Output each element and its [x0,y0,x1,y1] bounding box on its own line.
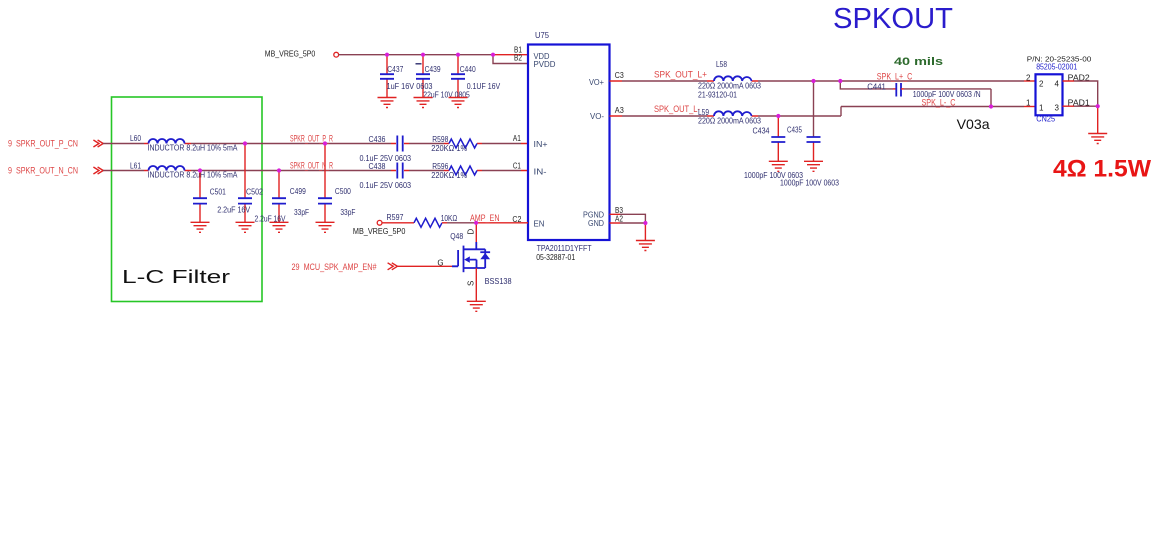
svg-text:R598: R598 [432,135,448,144]
svg-text:2: 2 [1039,80,1044,89]
svg-text:220KΩ 1%: 220KΩ 1% [431,144,467,153]
svg-text:40 mils: 40 mils [894,56,943,68]
svg-text:220KΩ 1%: 220KΩ 1% [431,171,467,180]
svg-text:INDUCTOR 8.2uH 10% 5mA: INDUCTOR 8.2uH 10% 5mA [148,171,239,180]
svg-text:MB_VREG_5P0: MB_VREG_5P0 [353,227,406,236]
svg-text:L60: L60 [130,134,141,143]
svg-text:CN25: CN25 [1036,114,1056,123]
svg-text:C499: C499 [290,187,306,196]
svg-text:AMP_EN: AMP_EN [470,213,500,223]
svg-text:L-C Filter: L-C Filter [122,267,230,287]
svg-text:SPKOUT: SPKOUT [833,3,953,35]
svg-text:C500: C500 [335,187,351,196]
svg-text:SPKR_OUT_P_R: SPKR_OUT_P_R [290,134,333,144]
svg-text:U75: U75 [535,31,550,40]
svg-text:1: 1 [1039,103,1044,112]
svg-text:A2: A2 [615,215,623,224]
svg-text:SPK_L+_C: SPK_L+_C [877,71,913,81]
svg-text:IN+: IN+ [534,140,548,149]
svg-text:220Ω 2000mA 0603: 220Ω 2000mA 0603 [698,82,761,91]
svg-text:C440: C440 [460,65,476,74]
svg-text:R597: R597 [387,213,404,222]
svg-text:85205-02001: 85205-02001 [1036,62,1077,71]
svg-text:C3: C3 [615,71,624,80]
svg-text:PVDD: PVDD [534,60,556,69]
svg-text:C502: C502 [246,188,263,197]
svg-text:SPK_OUT_L-: SPK_OUT_L- [654,104,700,114]
svg-text:1: 1 [1026,99,1031,108]
svg-text:V03a: V03a [957,116,990,132]
svg-text:33pF: 33pF [340,208,355,217]
svg-text:C437: C437 [387,65,403,74]
svg-text:A3: A3 [615,106,624,115]
svg-text:C436: C436 [369,135,386,144]
svg-text:C2: C2 [512,215,521,224]
svg-text:2: 2 [1026,74,1031,83]
svg-text:BSS138: BSS138 [485,277,513,286]
svg-text:INDUCTOR 8.2uH 10% 5mA: INDUCTOR 8.2uH 10% 5mA [148,144,239,153]
svg-text:B2: B2 [514,53,522,62]
svg-text:MB_VREG_5P0: MB_VREG_5P0 [265,50,316,59]
svg-text:0.1UF 16V: 0.1UF 16V [467,82,501,91]
svg-text:D: D [467,229,476,235]
svg-text:2.2uF 16V: 2.2uF 16V [217,206,251,215]
svg-text:EN: EN [534,220,545,229]
svg-text:B3: B3 [615,206,623,215]
svg-text:VO+: VO+ [589,78,604,87]
svg-text:L61: L61 [130,161,141,170]
svg-text:C434: C434 [753,126,770,135]
svg-text:C438: C438 [369,162,386,171]
svg-text:R596: R596 [432,162,448,171]
svg-text:21-93120-01: 21-93120-01 [698,91,737,100]
svg-text:10KΩ: 10KΩ [441,214,458,223]
svg-text:29 MCU_SPK_AMP_EN#: 29 MCU_SPK_AMP_EN# [292,262,377,272]
svg-text:L58: L58 [716,60,727,69]
svg-text:C435: C435 [787,126,802,135]
svg-text:C441: C441 [867,83,886,92]
svg-text:9 SPKR_OUT_P_CN: 9 SPKR_OUT_P_CN [8,138,78,148]
svg-text:4: 4 [1055,80,1060,89]
svg-text:0.1uF 25V 0603: 0.1uF 25V 0603 [360,181,412,190]
svg-text:3: 3 [1055,103,1060,112]
svg-text:Q48: Q48 [450,232,463,241]
svg-text:IN-: IN- [534,168,547,177]
svg-text:9 SPKR_OUT_N_CN: 9 SPKR_OUT_N_CN [8,165,78,175]
svg-text:220Ω 2000mA 0603: 220Ω 2000mA 0603 [698,117,761,126]
svg-text:1000pF 100V 0603: 1000pF 100V 0603 [780,178,839,187]
svg-text:C501: C501 [210,188,226,197]
svg-text:VO-: VO- [590,112,604,121]
svg-text:05-32887-01: 05-32887-01 [536,253,575,262]
svg-text:S: S [467,281,476,286]
svg-text:4Ω 1.5W: 4Ω 1.5W [1053,156,1151,183]
svg-text:A1: A1 [513,134,521,143]
svg-text:SPKR_OUT_N_R: SPKR_OUT_N_R [290,161,333,171]
svg-text:GND: GND [588,219,604,228]
svg-text:SPK_L-_C: SPK_L-_C [922,98,956,108]
svg-text:C1: C1 [513,162,521,171]
svg-text:33pF: 33pF [294,208,309,217]
svg-text:C439: C439 [425,65,441,74]
svg-text:SPK_OUT_L+: SPK_OUT_L+ [654,70,707,80]
svg-text:TPA2011D1YFFT: TPA2011D1YFFT [537,244,592,253]
